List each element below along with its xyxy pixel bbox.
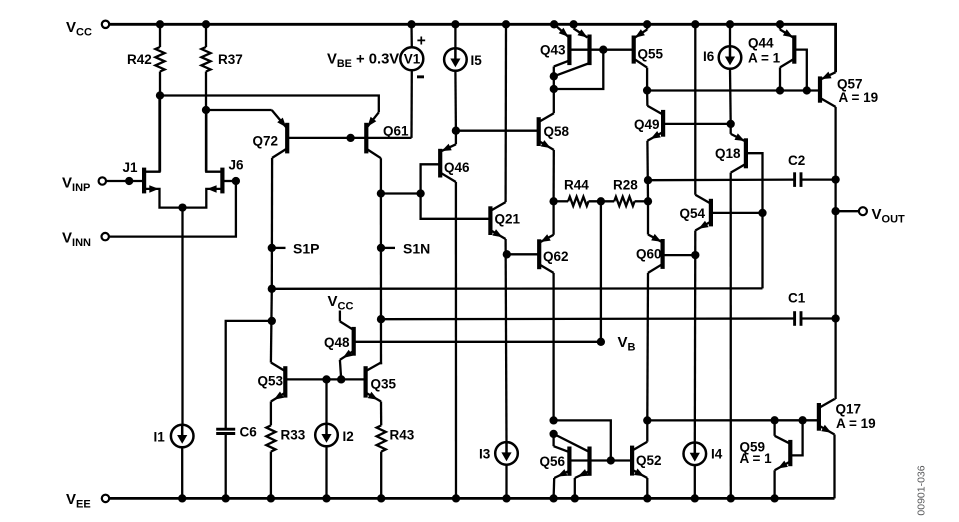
svg-text:S1P: S1P — [293, 240, 319, 256]
svg-text:I2: I2 — [343, 429, 354, 444]
svg-text:R37: R37 — [218, 52, 243, 67]
svg-text:Q58: Q58 — [544, 124, 570, 139]
svg-text:Q21: Q21 — [495, 212, 521, 227]
svg-text:Q17: Q17 — [836, 402, 862, 417]
svg-text:Q46: Q46 — [444, 160, 470, 175]
svg-text:I3: I3 — [479, 447, 491, 462]
svg-text:Q18: Q18 — [715, 146, 741, 161]
svg-text:Q35: Q35 — [371, 377, 397, 392]
svg-text:Q72: Q72 — [253, 134, 279, 149]
svg-text:R43: R43 — [390, 427, 415, 442]
svg-text:Q49: Q49 — [634, 117, 660, 132]
svg-text:C2: C2 — [788, 153, 805, 168]
svg-text:A = 1: A = 1 — [740, 451, 773, 466]
svg-text:C6: C6 — [240, 425, 258, 440]
svg-text:R28: R28 — [613, 178, 638, 193]
svg-text:A = 1: A = 1 — [748, 51, 781, 66]
svg-text:Q53: Q53 — [258, 373, 284, 388]
svg-text:V1: V1 — [404, 52, 421, 67]
svg-text:Q56: Q56 — [540, 454, 566, 469]
svg-text:+: + — [417, 33, 426, 50]
svg-text:A = 19: A = 19 — [836, 416, 876, 431]
svg-text:00901-036: 00901-036 — [916, 465, 928, 515]
svg-text:A = 19: A = 19 — [839, 90, 879, 105]
svg-text:J1: J1 — [123, 160, 139, 175]
svg-text:Q54: Q54 — [680, 206, 706, 221]
svg-text:J6: J6 — [229, 158, 245, 173]
svg-text:Q60: Q60 — [636, 247, 662, 262]
svg-text:I6: I6 — [703, 49, 715, 64]
svg-text:Q44: Q44 — [748, 36, 774, 51]
svg-text:Q43: Q43 — [540, 43, 566, 58]
svg-text:Q48: Q48 — [324, 335, 350, 350]
svg-text:R42: R42 — [127, 52, 152, 67]
svg-text:I4: I4 — [711, 447, 723, 462]
svg-text:R44: R44 — [564, 178, 589, 193]
svg-text:I1: I1 — [154, 430, 166, 445]
svg-text:Q55: Q55 — [638, 47, 664, 62]
svg-text:C1: C1 — [788, 291, 806, 306]
svg-text:Q62: Q62 — [543, 249, 569, 264]
svg-text:R33: R33 — [281, 427, 306, 442]
svg-text:I5: I5 — [471, 53, 483, 68]
svg-text:Q61: Q61 — [383, 124, 409, 139]
svg-text:Q52: Q52 — [636, 453, 662, 468]
svg-text:S1N: S1N — [403, 240, 430, 256]
